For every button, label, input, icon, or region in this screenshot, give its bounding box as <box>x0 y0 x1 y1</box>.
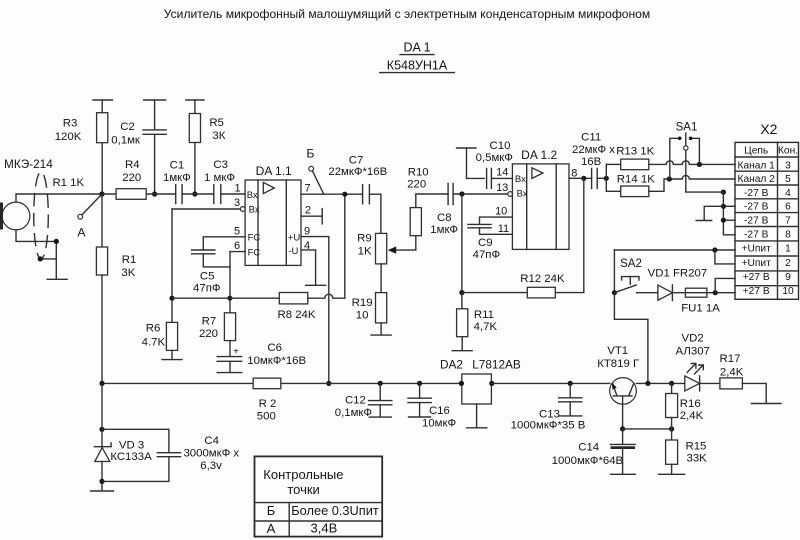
resistor R5 3K <box>194 100 196 114</box>
capacitor C5 47pF <box>192 250 215 254</box>
svg-text:500: 500 <box>257 411 276 423</box>
wire pin3 to feedback node <box>172 208 240 210</box>
svg-text:А: А <box>77 226 86 240</box>
wire R7 to C6 <box>229 341 231 357</box>
capacitor C11 22mkF x 16V <box>592 168 598 188</box>
wire pin2 with open bar <box>301 215 322 217</box>
svg-text:R14 1K: R14 1K <box>617 173 655 185</box>
resistor R10 220 <box>416 194 448 208</box>
wire SA2 to VT1 collector <box>614 293 648 384</box>
svg-text:3,4В: 3,4В <box>311 521 338 536</box>
svg-text:47пФ: 47пФ <box>193 283 221 295</box>
svg-text:C8: C8 <box>437 212 452 224</box>
svg-text:R3: R3 <box>63 118 78 130</box>
op-amp DA1.1 triangle <box>263 182 274 193</box>
svg-text:1 мкФ: 1 мкФ <box>204 172 235 184</box>
wire R1 down to +12V rail <box>101 275 103 383</box>
svg-text:0,5мкФ: 0,5мкФ <box>476 152 513 164</box>
svg-text:R 2: R 2 <box>259 398 277 410</box>
svg-text:8: 8 <box>785 229 791 240</box>
wire node Б diagonal <box>312 171 323 194</box>
wire C6 to ground <box>229 362 231 372</box>
resistor R3 <box>101 100 103 113</box>
wire R13 to X2 kanal1 with hops <box>649 161 735 165</box>
junction rail/C12 <box>378 381 383 386</box>
ground R11 <box>452 350 472 352</box>
wire C5 bottom loop to pin6 FC <box>203 252 245 267</box>
svg-text:220: 220 <box>122 172 141 184</box>
wire +Upit to X2 row1 <box>614 249 735 251</box>
junction R16 top <box>669 381 674 386</box>
svg-text:Канал 2: Канал 2 <box>738 174 776 185</box>
microphone BM1 МКЭ-214 capsule circle <box>2 202 30 230</box>
svg-text:C10: C10 <box>490 140 511 152</box>
svg-text:C14: C14 <box>578 441 599 453</box>
svg-text:Усилитель микрофонный малошумя: Усилитель микрофонный малошумящий с элек… <box>164 7 650 21</box>
op-amp DA1.1 body <box>245 180 301 265</box>
svg-text:Вх: Вх <box>515 174 526 185</box>
wire R11 to ground <box>461 337 463 350</box>
wire C10 to pin14 <box>491 177 512 179</box>
ground VD3 <box>91 490 114 492</box>
svg-text:6: 6 <box>785 202 791 213</box>
VT1 collector diagonal <box>629 383 634 395</box>
svg-text:VD 3: VD 3 <box>119 439 144 451</box>
resistor R15 33K <box>671 429 673 440</box>
svg-text:7: 7 <box>785 215 791 226</box>
wire output vertical down to feedback <box>344 194 346 298</box>
junction +Upit <box>712 247 717 252</box>
junction VT1 base bottom <box>620 426 625 431</box>
svg-text:C4: C4 <box>204 435 219 447</box>
resistor R13 1K <box>606 163 620 165</box>
wire pin10 stub <box>480 217 513 224</box>
svg-text:DA 1.1: DA 1.1 <box>256 164 292 178</box>
resistor R8 24K <box>279 293 308 304</box>
svg-text:R5: R5 <box>209 117 224 129</box>
pin13 inverting circle DA1.2 <box>508 192 513 197</box>
svg-text:R1: R1 <box>122 254 137 266</box>
ground C12 <box>369 416 391 418</box>
svg-text:АЛ307: АЛ307 <box>676 345 710 357</box>
svg-text:6: 6 <box>234 240 240 252</box>
svg-text:1000мкФ*35 В: 1000мкФ*35 В <box>511 420 586 432</box>
svg-text:-U: -U <box>288 246 298 257</box>
svg-text:10: 10 <box>782 286 794 297</box>
wire pin9 +U down to rail <box>301 237 329 384</box>
ground DA2 <box>467 427 487 429</box>
svg-text:Канал 1: Канал 1 <box>738 160 776 171</box>
supply bar above R5 <box>186 99 204 101</box>
svg-text:R9: R9 <box>357 232 372 244</box>
svg-text:220: 220 <box>199 328 218 340</box>
pin3 inverting input circle <box>240 207 245 212</box>
svg-text:Вх: Вх <box>247 190 258 201</box>
ground -U pin4 <box>306 284 326 286</box>
op-amp DA1.2 triangle <box>532 168 543 179</box>
wire mic bottom to ground <box>16 230 56 279</box>
svg-text:+27 В: +27 В <box>743 272 770 283</box>
junction VD3 bottom <box>99 479 104 484</box>
svg-text:C2: C2 <box>120 121 135 133</box>
resistor R16 2,4K <box>671 383 673 393</box>
svg-text:точки: точки <box>287 482 319 497</box>
control points table <box>255 456 383 536</box>
svg-text:220: 220 <box>407 179 426 191</box>
resistor R14 1K <box>606 190 620 192</box>
wire node A diagonal <box>82 195 102 215</box>
wire C8 to pin13 <box>453 193 508 195</box>
junction R11/R12 <box>459 290 464 295</box>
svg-text:X2: X2 <box>760 121 777 137</box>
svg-text:3: 3 <box>234 197 240 209</box>
svg-text:2: 2 <box>785 258 791 269</box>
capacitor C16 10mkF <box>419 383 421 398</box>
svg-text:10: 10 <box>356 309 369 321</box>
svg-text:3К: 3К <box>212 130 225 142</box>
wire VT1 right to VD2 <box>636 382 685 384</box>
svg-text:5: 5 <box>234 225 240 237</box>
capacitor C7 22mkF*16V <box>363 185 370 204</box>
junction DA2 input <box>459 381 464 386</box>
VT1 base stem down <box>622 397 624 429</box>
capacitor C9 47pF <box>468 224 491 227</box>
svg-text:DA 1.2: DA 1.2 <box>521 148 557 162</box>
svg-text:22мкФ*16В: 22мкФ*16В <box>328 166 387 178</box>
svg-text:9: 9 <box>785 272 791 283</box>
svg-text:DA 1: DA 1 <box>403 41 430 55</box>
svg-text:Цепь: Цепь <box>744 146 768 157</box>
junction R13/R14 split <box>604 176 609 181</box>
microphone flat-side bar <box>0 203 3 230</box>
svg-text:9: 9 <box>304 226 310 238</box>
junction VD3 top <box>99 427 104 432</box>
svg-text:+Uпит: +Uпит <box>742 244 772 255</box>
resistor R1 3K <box>101 194 103 247</box>
junction rail/C13 <box>568 381 573 386</box>
node A circle <box>78 214 83 219</box>
wire C1 to C3 <box>182 193 214 195</box>
junction rail/C16 <box>417 381 422 386</box>
svg-text:Кон.: Кон. <box>778 146 798 157</box>
junction mic-bottom <box>54 239 59 244</box>
svg-text:-27 В: -27 В <box>744 229 769 240</box>
junction C8 right <box>459 191 464 196</box>
ground C6 <box>217 372 242 374</box>
svg-text:-27 В: -27 В <box>744 202 769 213</box>
svg-text:К548УН1А: К548УН1А <box>387 59 448 73</box>
supply bar above C2 <box>144 99 166 101</box>
svg-text:Б: Б <box>306 146 314 160</box>
wire bar to C10 <box>467 148 485 178</box>
wire main node to C1 <box>102 193 176 195</box>
svg-text:FC: FC <box>248 247 261 258</box>
ground C14 <box>611 473 636 475</box>
capacitor C2 0,1mk <box>154 100 156 130</box>
svg-text:6,3v: 6,3v <box>200 460 222 472</box>
junction C2 bottom <box>152 191 157 196</box>
diode VD1 FR207 <box>658 285 673 300</box>
svg-text:-27 В: -27 В <box>744 188 769 199</box>
resistor R9 1K (trimmer) <box>376 233 387 264</box>
svg-text:3000мкФ х: 3000мкФ х <box>183 448 239 460</box>
open terminal bar C10 <box>457 147 476 149</box>
capacitor C3 1 mkF <box>214 185 221 204</box>
svg-text:1: 1 <box>234 182 240 194</box>
svg-text:2,4K: 2,4K <box>680 410 704 422</box>
svg-text:1K: 1K <box>358 245 372 257</box>
resistor R19 10 <box>376 293 387 323</box>
svg-text:С3: С3 <box>213 159 228 171</box>
svg-text:3K: 3K <box>121 267 135 279</box>
resistor R6 4.7K <box>166 322 177 350</box>
microphone dashed case ellipse <box>34 172 49 259</box>
svg-text:1000мкФ*64В: 1000мкФ*64В <box>552 455 624 467</box>
svg-text:R13 1K: R13 1K <box>616 145 654 157</box>
svg-text:16В: 16В <box>581 156 601 168</box>
svg-text:R1 1K: R1 1K <box>52 177 84 189</box>
svg-text:R4: R4 <box>125 159 140 171</box>
svg-text:R17: R17 <box>720 353 741 365</box>
VD2 emission arrows <box>687 364 696 373</box>
svg-text:14: 14 <box>496 166 508 178</box>
stub -27V row6 <box>723 205 735 207</box>
svg-text:13: 13 <box>496 182 508 194</box>
svg-text:5: 5 <box>785 174 791 185</box>
resistor R11 4,7K <box>461 293 463 309</box>
svg-text:R11: R11 <box>474 309 494 321</box>
junction SA2 <box>612 290 617 295</box>
wire VD2 to R17 <box>700 382 720 384</box>
switch SA2 blade <box>614 285 636 293</box>
wire pin7 output <box>301 193 363 195</box>
svg-text:SA1: SA1 <box>676 121 698 133</box>
feedback wire R6 to R8 <box>172 297 279 299</box>
svg-text:R12 24K: R12 24K <box>520 273 565 285</box>
stub +Upit row2 <box>715 250 735 264</box>
svg-text:33K: 33K <box>687 452 708 464</box>
svg-text:2,4K: 2,4K <box>720 366 744 378</box>
svg-text:2: 2 <box>305 204 311 216</box>
wire mic case tap <box>40 258 56 260</box>
capacitor C1 1mkF <box>176 185 182 204</box>
svg-text:R19: R19 <box>352 297 373 309</box>
switch SA1 pole <box>685 133 687 146</box>
svg-text:4.7K: 4.7K <box>142 336 166 348</box>
svg-text:7: 7 <box>304 182 310 194</box>
R9 wiper arrow <box>393 236 416 250</box>
op-amp DA1.2 body <box>512 164 569 250</box>
svg-text:4: 4 <box>785 188 791 199</box>
svg-text:10мкФ: 10мкФ <box>422 417 456 429</box>
wire DA2 output to VT1 <box>491 382 609 384</box>
svg-text:R10: R10 <box>408 166 429 178</box>
svg-text:КТ819 Г: КТ819 Г <box>597 358 639 370</box>
wire DA2 ground <box>476 404 478 427</box>
switch SA1 left contact <box>670 138 678 179</box>
junction pin7 node <box>342 192 347 197</box>
capacitor C13 1000mkF*35V <box>569 383 571 397</box>
wire C3 to pin1 DA1.1 <box>221 193 245 195</box>
wire R8 to output node with hop over +U line <box>308 294 345 298</box>
svg-text:R15: R15 <box>686 440 707 452</box>
svg-text:-27 В: -27 В <box>744 215 769 226</box>
svg-text:R8 24K: R8 24K <box>278 309 316 321</box>
svg-text:C12: C12 <box>345 394 366 406</box>
ground -27V <box>696 220 712 222</box>
ground C16 <box>409 416 431 418</box>
wire R6 to ground <box>171 350 173 359</box>
svg-text:10: 10 <box>495 205 507 217</box>
junction +27V <box>713 290 718 295</box>
svg-text:22мкФ х: 22мкФ х <box>572 144 615 156</box>
svg-text:C9: C9 <box>478 237 493 249</box>
zener diode VD3 KS133A <box>101 383 103 446</box>
wire R17 to ground <box>742 383 766 402</box>
svg-text:0,1мкФ: 0,1мкФ <box>335 407 372 419</box>
junction DA2 output <box>489 381 494 386</box>
svg-text:C16: C16 <box>429 405 450 417</box>
wire C7 to R9 <box>369 194 381 233</box>
junction SA1 pole to -27V bus <box>721 190 726 195</box>
wire C4 loop <box>102 429 169 481</box>
wire mic top to main node <box>16 194 102 202</box>
svg-text:3: 3 <box>785 160 791 171</box>
svg-text:КС133А: КС133А <box>110 451 152 463</box>
junction kanal1/SA1 <box>697 162 702 167</box>
svg-text:11: 11 <box>498 223 509 235</box>
svg-text:10мкФ*16В: 10мкФ*16В <box>247 355 306 367</box>
svg-text:1: 1 <box>785 244 791 255</box>
wire R19 to ground <box>380 323 382 335</box>
svg-text:L7812АВ: L7812АВ <box>472 357 521 371</box>
svg-text:+U: +U <box>288 233 301 244</box>
svg-text:0,1мк: 0,1мк <box>111 135 141 147</box>
wire base node to R16/R15 node <box>623 428 672 430</box>
ground R19 <box>371 334 391 336</box>
capacitor C10 0,5mkF <box>487 168 492 188</box>
wire R3 to main node <box>101 143 103 194</box>
svg-text:Б: Б <box>267 503 276 518</box>
junction R5 bottom <box>192 191 197 196</box>
svg-text:+27 В: +27 В <box>743 286 770 297</box>
ground R15 <box>659 473 685 475</box>
junction pin8 <box>581 176 586 181</box>
capacitor C14 1000mkF*64V electrolytic <box>622 429 624 444</box>
svg-text:120K: 120K <box>55 131 82 143</box>
wire -27V bus <box>723 192 735 235</box>
svg-text:C13: C13 <box>539 408 560 420</box>
svg-text:FC: FC <box>248 233 261 244</box>
wire R5 to wire <box>194 143 196 195</box>
wire VD1 through fuse to X2 <box>672 292 735 294</box>
junction R16 bottom <box>669 426 674 431</box>
junction main input node <box>99 191 104 196</box>
svg-text:SA2: SA2 <box>620 258 642 270</box>
wire C9 to pin11 <box>480 228 513 234</box>
svg-text:C11: C11 <box>581 131 601 143</box>
capacitor C8 1mkF <box>448 184 453 205</box>
ground mic <box>47 278 67 280</box>
svg-text:1мкФ: 1мкФ <box>430 224 458 236</box>
svg-text:+Uпит: +Uпит <box>742 258 772 269</box>
svg-text:Контрольные: Контрольные <box>263 467 343 482</box>
resistor R17 2,4K <box>720 378 743 389</box>
ground R17 <box>751 403 781 405</box>
junction collector <box>645 381 650 386</box>
junction +U rail <box>326 381 331 386</box>
svg-text:VD2: VD2 <box>682 332 704 344</box>
wire R9 to R19 <box>380 264 382 293</box>
wire R12 up to pin8 <box>555 178 584 292</box>
svg-text:C5: C5 <box>200 270 215 282</box>
wire pin8 to C11 <box>569 177 592 179</box>
resistor R7 220 <box>224 313 235 341</box>
capacitor C12 0,1mkF <box>379 383 381 400</box>
svg-text:VD1 FR207: VD1 FR207 <box>648 267 708 279</box>
voltage regulator DA2 L7812AB <box>462 374 492 404</box>
switch SA1 right contact <box>692 138 699 164</box>
wire R14 jog up to kanal2 line <box>649 175 735 191</box>
svg-text:C6: C6 <box>267 342 282 354</box>
junction rail/R1 <box>99 381 104 386</box>
capacitor C4 3000mkF <box>157 453 180 457</box>
ground R6 <box>162 359 182 361</box>
VT1 emitter diagonal with arrow <box>613 384 617 395</box>
stub -27V row7 <box>723 219 735 221</box>
svg-text:DA2: DA2 <box>440 357 463 371</box>
junction feedback left <box>169 296 174 301</box>
resistor R2 500 <box>253 378 281 389</box>
resistor R4 220 <box>116 189 146 200</box>
svg-text:FU1 1А: FU1 1А <box>681 303 720 315</box>
supply bar above R3 <box>93 99 113 101</box>
svg-text:R7: R7 <box>202 316 217 328</box>
wire inverting node down to R6 <box>171 209 173 322</box>
junction kanal2/SA1 <box>667 176 672 181</box>
svg-text:C1: C1 <box>170 159 185 171</box>
node Б circle <box>309 166 314 171</box>
svg-text:1мкФ: 1мкФ <box>163 172 191 184</box>
svg-text:Вх: Вх <box>517 188 528 199</box>
wire C11 to R13/R14 node <box>597 177 606 179</box>
wire loop down to R7 <box>229 267 231 313</box>
wire pin5 FC <box>203 237 245 250</box>
wire junction down to R11/R12 <box>461 194 463 293</box>
transistor VT1 KT819G circle <box>610 378 637 405</box>
wire pin4 -U to ground <box>301 250 316 285</box>
svg-text:4,7K: 4,7K <box>474 321 498 333</box>
wire from +U down to SA2 <box>613 250 615 293</box>
LED VD2 AL307 <box>685 376 700 391</box>
wire +12V rail left section <box>102 382 462 384</box>
wire SA2 to VD1 <box>637 292 658 294</box>
svg-text:8: 8 <box>571 167 577 179</box>
junction R7 top <box>227 296 232 301</box>
resistor R12 24K <box>462 292 527 294</box>
svg-text:C7: C7 <box>349 154 364 166</box>
svg-text:А: А <box>267 521 276 536</box>
svg-text:VT1: VT1 <box>607 345 628 357</box>
svg-text:Вх: Вх <box>249 204 260 215</box>
svg-text:Более 0.3Uпит: Более 0.3Uпит <box>291 503 379 518</box>
ground C13 <box>559 415 582 417</box>
switch SA2 actuator <box>622 277 639 280</box>
junction mic case <box>38 256 43 261</box>
svg-text:R6: R6 <box>146 323 161 335</box>
svg-text:R16: R16 <box>680 398 701 410</box>
fuse FU1 1A <box>685 288 707 297</box>
